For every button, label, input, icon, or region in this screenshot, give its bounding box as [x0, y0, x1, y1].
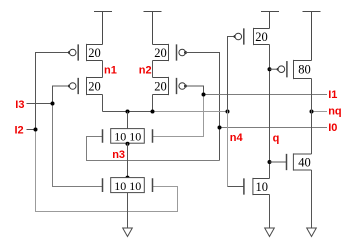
- wire I3 stub: [27, 103, 53, 105]
- node I2 junction: [34, 128, 38, 132]
- node I0 junction: [218, 126, 222, 130]
- node n3 junction: [126, 142, 130, 146]
- svg-text:20: 20: [154, 46, 167, 60]
- node I1 junction: [202, 93, 206, 97]
- svg-text:10: 10: [255, 180, 268, 194]
- node q-N6gate junction: [268, 160, 272, 164]
- svg-text:I0: I0: [328, 122, 337, 134]
- node nq-right junction: [310, 110, 314, 114]
- node nq rail end junction: [226, 110, 230, 114]
- wire boxB bottom to ground: [127, 193, 129, 228]
- wire N5 gate stub: [228, 186, 244, 188]
- wire nq rail left: [103, 111, 153, 113]
- ground G1: [123, 228, 133, 237]
- wire I0 rail: [220, 127, 328, 129]
- wire I1 net: down to box A right gate: [153, 95, 204, 137]
- wire P1b drain to nq rail: [102, 95, 104, 112]
- wire node n1 riser: [102, 61, 104, 78]
- ground G3: [307, 228, 317, 237]
- wire I3 net lower: down to box B left gate: [53, 104, 103, 187]
- transistor P4 (pmos 80): [277, 60, 312, 79]
- svg-text:10 10: 10 10: [114, 179, 141, 193]
- svg-text:q: q: [273, 132, 280, 144]
- wire P3 gate vertical: [228, 37, 236, 112]
- svg-text:I3: I3: [15, 99, 24, 111]
- wire I3 net upper: P1b gate corner: [53, 86, 70, 104]
- transistor pair box B (nmos 10 10): [103, 178, 153, 193]
- power vdd T1: [94, 12, 112, 45]
- wire P4 gate stub: [270, 68, 279, 70]
- svg-text:nq: nq: [328, 106, 341, 118]
- svg-text:20: 20: [88, 79, 101, 93]
- power vdd T4: [303, 12, 321, 61]
- wire N6 gate stub: [270, 161, 287, 163]
- svg-text:n2: n2: [139, 64, 152, 76]
- node q-P4gate junction: [268, 67, 272, 71]
- node boxB top junction: [126, 176, 130, 180]
- wire P2b drain to nq rail: [152, 95, 154, 112]
- wire I0 net: left along y160 and up to box A left gate: [87, 137, 220, 161]
- transistor P1a (pmos 20): [68, 44, 103, 61]
- node I3 junction: [51, 102, 55, 106]
- svg-text:40: 40: [298, 155, 311, 169]
- transistor P2b (pmos 20 mirrored): [153, 77, 188, 95]
- svg-text:n4: n4: [230, 132, 244, 144]
- svg-text:I2: I2: [15, 124, 24, 136]
- wire N5 source to ground: [269, 195, 271, 229]
- wire I0 net: P2a gate right then down to y160: [186, 53, 220, 161]
- svg-text:20: 20: [255, 30, 268, 44]
- svg-text:n1: n1: [104, 64, 117, 76]
- wire I1 net: P2b gate right down to I1 rail: [186, 86, 204, 95]
- wire nq column N6 source to ground: [311, 170, 313, 228]
- svg-text:80: 80: [298, 63, 311, 77]
- wire I2 net lower loop to box B right gate: [36, 130, 178, 212]
- wire I2 net upper: P1a gate to left rail: [36, 53, 70, 130]
- wire I1 rail: [204, 94, 328, 96]
- wire nq rail right light: [153, 111, 228, 113]
- wire nq column P4 drain to N6: [311, 79, 313, 155]
- svg-text:n3: n3: [112, 149, 125, 161]
- node nq-P2b junction: [151, 110, 155, 114]
- wire I2 stub: [27, 129, 36, 131]
- power vdd T2: [144, 12, 162, 45]
- transistor P3 (pmos 20): [234, 28, 270, 45]
- wire nq stub right: [312, 111, 328, 113]
- svg-text:I1: I1: [328, 89, 337, 101]
- transistor N5 (nmos 10): [244, 178, 270, 195]
- svg-text:20: 20: [88, 46, 101, 60]
- svg-text:10 10: 10 10: [114, 129, 141, 143]
- transistor pair box A (nmos 10 10): [103, 129, 153, 144]
- node nq-boxA junction: [126, 110, 130, 114]
- wire n3 boxA to boxB: [127, 143, 129, 177]
- wire boxA top to nq rail: [127, 112, 129, 129]
- wire q column: [269, 45, 271, 179]
- transistor P1b (pmos 20): [68, 77, 103, 95]
- transistor P2a (pmos 20 mirrored): [153, 44, 188, 61]
- ground G2: [265, 228, 275, 237]
- wire node n2 riser: [152, 61, 154, 78]
- transistor N6 (nmos 40): [287, 153, 312, 170]
- power vdd T3: [261, 12, 279, 29]
- wire nq vertical to N5 gate: [227, 112, 229, 187]
- svg-text:20: 20: [154, 79, 167, 93]
